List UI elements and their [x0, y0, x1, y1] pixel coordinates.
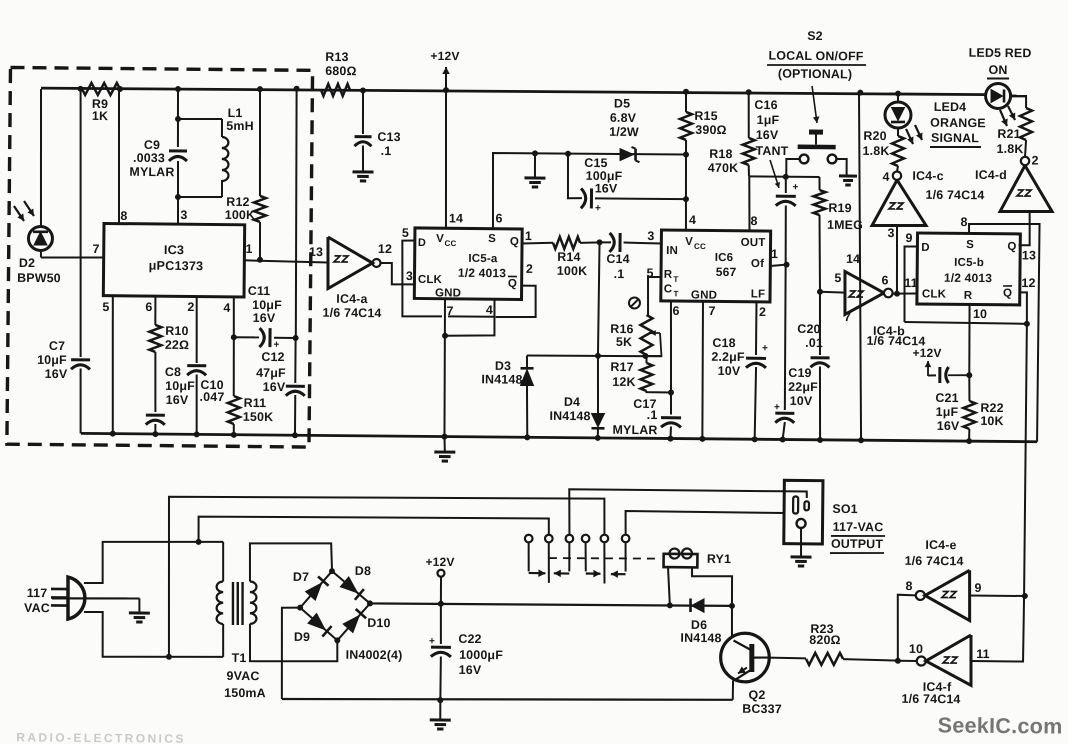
- diode D6 IN4148: [680, 598, 722, 645]
- wire long S2 vertical: [856, 93, 865, 441]
- transformer T1 core: [233, 582, 243, 625]
- capacitor C12 47uF 16V: [256, 350, 306, 435]
- svg-text:T: T: [673, 275, 678, 284]
- svg-text:R10: R10: [165, 324, 188, 338]
- svg-text:D10: D10: [367, 616, 390, 630]
- svg-text:16V: 16V: [756, 128, 779, 142]
- svg-text:+: +: [774, 402, 780, 413]
- svg-text:D3: D3: [495, 359, 511, 373]
- svg-text:+12V: +12V: [430, 49, 459, 63]
- svg-text:D9: D9: [294, 630, 310, 644]
- svg-text:470K: 470K: [708, 161, 739, 175]
- svg-text:CLK: CLK: [922, 288, 947, 300]
- svg-text:C22: C22: [458, 632, 481, 646]
- wire IC6 pin6 CT: [670, 302, 672, 415]
- svg-text:RADIO-ELECTRONICS: RADIO-ELECTRONICS: [16, 730, 186, 744]
- svg-text:MYLAR: MYLAR: [129, 165, 174, 179]
- svg-text:.1: .1: [647, 408, 658, 422]
- capacitor C22 1000uF 16V: [428, 604, 503, 701]
- capacitor C16 1uF 16V TANT: [753, 98, 800, 268]
- svg-text:Q: Q: [1007, 241, 1016, 253]
- svg-text:T: T: [673, 289, 678, 298]
- capacitor C9 .0033 MYLAR: [129, 138, 187, 180]
- IC u3 IC3 uPC1373: [103, 223, 244, 297]
- relay coil RY1: [663, 548, 732, 606]
- svg-text:6: 6: [672, 304, 679, 318]
- svg-text:117-VAC: 117-VAC: [833, 520, 884, 534]
- svg-text:12: 12: [378, 242, 392, 256]
- wire IC3 pin2: [187, 297, 197, 363]
- svg-text:10: 10: [973, 307, 987, 321]
- IC u5b IC5-b 1/2 4013: [917, 233, 1020, 305]
- wire IC5-b Qbar pin12: [1019, 292, 1027, 323]
- wire IC3 pin8: [118, 89, 129, 224]
- svg-text:8: 8: [750, 214, 757, 228]
- svg-text:Q: Q: [1003, 287, 1012, 299]
- svg-text:13: 13: [1022, 248, 1036, 262]
- resistor R10 22ohm: [149, 324, 190, 413]
- svg-text:16V: 16V: [459, 663, 482, 677]
- wire IC5-b S pin8 ground return: [967, 223, 1040, 441]
- svg-text:+12V: +12V: [912, 346, 941, 360]
- svg-text:(OPTIONAL): (OPTIONAL): [778, 67, 852, 82]
- terminal relay contacts: [525, 534, 630, 544]
- svg-text:CC: CC: [445, 239, 457, 248]
- svg-text:C16: C16: [754, 98, 777, 112]
- wire D2 to IC3 pin7: [41, 257, 104, 258]
- svg-text:16V: 16V: [166, 393, 189, 407]
- svg-text:VAC: VAC: [24, 601, 50, 615]
- label SO1: [830, 502, 885, 554]
- resistor R14 100K: [521, 236, 602, 278]
- svg-text:+: +: [273, 339, 279, 350]
- wire IC6 pin8 OUT: [749, 176, 750, 230]
- svg-text:3: 3: [887, 226, 894, 240]
- svg-text:IC6: IC6: [715, 252, 734, 264]
- svg-text:7: 7: [708, 304, 715, 318]
- photodiode D2 BPW50: [13, 89, 62, 286]
- svg-text:R11: R11: [244, 396, 267, 410]
- LED LED4 orange: [885, 93, 986, 147]
- wire IC4-d input to Q13: [1019, 211, 1030, 245]
- label IN4002: [346, 648, 403, 663]
- power +12V terminal: [425, 555, 455, 604]
- wire C9/L1 tank verticals: [174, 89, 182, 224]
- resistor R15 390ohm: [679, 92, 727, 231]
- svg-text:6: 6: [495, 211, 502, 225]
- wire Qbar node long vertical: [971, 323, 1030, 661]
- svg-text:LOCAL ON/OFF: LOCAL ON/OFF: [768, 49, 863, 64]
- svg-text:3: 3: [647, 229, 654, 243]
- wire IC3 pin6: [145, 297, 155, 325]
- wire relay arm 3: [554, 542, 570, 577]
- svg-text:5mH: 5mH: [226, 119, 254, 133]
- label IC3 pin1: [245, 242, 252, 256]
- capacitor C18 2.2uF 10V: [711, 336, 768, 378]
- svg-text:R21: R21: [997, 127, 1020, 141]
- node bridge corners: [297, 568, 374, 644]
- wire IC4-e input: [970, 594, 1025, 597]
- svg-text:OUT: OUT: [741, 237, 766, 249]
- svg-text:OUTPUT: OUTPUT: [831, 537, 883, 552]
- wire bridge minus to ground line: [281, 607, 734, 705]
- svg-text:9: 9: [974, 581, 981, 595]
- svg-text:C20: C20: [797, 322, 820, 336]
- svg-text:V: V: [436, 233, 444, 245]
- svg-text:IC4-e: IC4-e: [925, 538, 956, 552]
- svg-text:D: D: [418, 237, 426, 249]
- svg-text:Of: Of: [751, 258, 764, 270]
- wire +12V top rail: [41, 86, 1026, 98]
- svg-text:C14: C14: [606, 252, 629, 266]
- power +12V C21 feed: [912, 346, 941, 376]
- svg-text:MYLAR: MYLAR: [612, 423, 657, 437]
- svg-text:SIGNAL: SIGNAL: [931, 131, 979, 145]
- IC u5a IC5-a 1/2 4013: [414, 228, 522, 300]
- svg-text:C12: C12: [261, 350, 284, 364]
- wire line B T1 primary bottom tap to pole5: [167, 494, 604, 661]
- node ground bus junction dots: [110, 430, 972, 445]
- svg-text:10K: 10K: [980, 414, 1003, 428]
- diode D10: [343, 609, 391, 633]
- wire line C T1 primary top tap to pole2: [198, 515, 549, 545]
- resistor R13 680ohm: [321, 50, 357, 96]
- svg-text:5K: 5K: [616, 335, 632, 349]
- svg-text:1/6 74C14: 1/6 74C14: [323, 306, 382, 321]
- label IC3 pin3: [180, 208, 187, 222]
- wire IC5-b Q pin13: [1019, 244, 1030, 246]
- resistor R18 470K: [708, 92, 756, 177]
- svg-text:BPW50: BPW50: [17, 271, 61, 285]
- wire IC6 pin7 GND: [702, 302, 704, 439]
- svg-text:150mA: 150mA: [224, 686, 266, 700]
- wire IC6 pin5 RT loop: [648, 277, 662, 315]
- inverter U4b IC4-b 74C14: [834, 252, 927, 348]
- diode D7: [293, 570, 329, 600]
- svg-text:16V: 16V: [263, 380, 286, 394]
- svg-text:C18: C18: [712, 336, 735, 350]
- wire IC5-a pin4 R: [442, 299, 495, 339]
- svg-text:9: 9: [905, 231, 912, 245]
- svg-text:T1: T1: [232, 651, 247, 665]
- ground SO1: [790, 557, 811, 566]
- svg-text:C13: C13: [377, 130, 400, 144]
- svg-text:BC337: BC337: [742, 702, 782, 716]
- svg-text:16V: 16V: [253, 311, 276, 325]
- wire IC5-a pin7 GND: [444, 300, 446, 437]
- transformer T1 secondary: [224, 581, 267, 700]
- resistor R19 1MEG: [813, 177, 864, 295]
- wire plug middle to ground: [52, 598, 140, 612]
- svg-text:.1: .1: [614, 267, 625, 281]
- svg-text:5: 5: [646, 266, 653, 280]
- diode D4 IN4148: [549, 355, 605, 438]
- svg-text:μPC1373: μPC1373: [149, 259, 204, 274]
- wire IC6 pin2 LF: [755, 302, 757, 439]
- svg-text:3: 3: [406, 269, 413, 283]
- svg-text:567: 567: [716, 265, 737, 279]
- svg-text:IN4002(4): IN4002(4): [346, 648, 403, 663]
- node rail junction dots: [77, 82, 901, 100]
- svg-text:IC5-a: IC5-a: [468, 253, 498, 265]
- svg-text:RY1: RY1: [707, 552, 731, 566]
- svg-text:8: 8: [960, 215, 967, 229]
- svg-text:GND: GND: [435, 287, 461, 299]
- svg-text:8: 8: [120, 209, 127, 223]
- svg-text:SeekIC.com: SeekIC.com: [938, 713, 1063, 738]
- resistor R22 10K: [963, 375, 1004, 441]
- wire IC5-a D loop pin5: [402, 240, 496, 317]
- wire IC4-f input: [971, 660, 1023, 663]
- svg-text:1.8K: 1.8K: [997, 142, 1024, 156]
- diode D8: [340, 564, 371, 600]
- svg-text:10V: 10V: [718, 364, 741, 378]
- svg-text:IC4-c: IC4-c: [912, 169, 943, 183]
- capacitor C17 .1 MYLAR: [612, 397, 681, 439]
- svg-text:C19: C19: [788, 366, 811, 380]
- wire relay pole 5: [603, 542, 606, 583]
- svg-text:.0033: .0033: [133, 151, 165, 165]
- svg-text:5: 5: [834, 271, 841, 285]
- svg-text:10μF: 10μF: [37, 353, 67, 367]
- svg-text:7: 7: [92, 242, 99, 256]
- transformer T1 primary: [216, 542, 224, 657]
- svg-text:S2: S2: [807, 29, 823, 43]
- svg-text:11: 11: [976, 647, 990, 661]
- power +12V arrow: [430, 49, 460, 90]
- wire IC5-a pin6 S to ground: [492, 150, 686, 230]
- inverter U4e IC4-e 74C14: [904, 538, 982, 621]
- wire relay arm 1: [528, 542, 545, 577]
- svg-text:.047: .047: [200, 390, 225, 404]
- resistor R20 1.8K: [862, 129, 904, 172]
- svg-text:16V: 16V: [595, 181, 618, 195]
- svg-text:10μF: 10μF: [165, 379, 195, 393]
- svg-text:22μF: 22μF: [788, 380, 818, 394]
- svg-text:R20: R20: [863, 129, 886, 143]
- svg-text:14: 14: [846, 252, 860, 266]
- dashed enclosure (photodetector module): [7, 67, 313, 447]
- svg-text:10V: 10V: [790, 394, 813, 408]
- ground main bus symbol: [434, 437, 455, 462]
- svg-text:R15: R15: [694, 109, 717, 123]
- wire IC5-b CLK: [892, 291, 917, 297]
- wire IC5-b D loop: [904, 246, 918, 322]
- wire IC3 pin1 output: [244, 260, 328, 262]
- svg-text:390Ω: 390Ω: [695, 123, 727, 137]
- resistor R9 1K: [82, 83, 120, 124]
- inverter U4f IC4-f 74C14: [902, 634, 990, 706]
- capacitor C21 1uF 16V: [935, 367, 969, 433]
- wire +12V feed / C12 branch: [292, 89, 301, 383]
- label S2: [767, 29, 867, 124]
- svg-text:S: S: [966, 239, 974, 251]
- svg-text:.01: .01: [805, 336, 823, 350]
- svg-text:D5: D5: [614, 96, 630, 110]
- svg-text:5: 5: [102, 300, 109, 314]
- svg-text:4: 4: [223, 301, 230, 315]
- svg-text:R13: R13: [325, 50, 348, 64]
- svg-text:R18: R18: [709, 147, 732, 161]
- svg-text:ON: ON: [988, 63, 1007, 77]
- svg-text:+: +: [793, 182, 799, 193]
- svg-text:6: 6: [881, 273, 888, 287]
- ground at IC5-a S: [524, 153, 545, 187]
- svg-text:D7: D7: [293, 570, 309, 584]
- svg-text:1/2 4013: 1/2 4013: [944, 271, 993, 285]
- svg-text:LED4: LED4: [934, 100, 967, 114]
- capacitor C15 100uF 16V: [567, 154, 686, 215]
- svg-text:1/2 4013: 1/2 4013: [458, 266, 507, 280]
- wire relay pole 2: [547, 542, 550, 583]
- svg-text:C8: C8: [165, 365, 181, 379]
- diode D3 IN4148: [481, 355, 534, 437]
- svg-text:1: 1: [245, 242, 252, 256]
- wire bridge edges: [300, 571, 370, 641]
- svg-text:22Ω: 22Ω: [165, 338, 189, 352]
- label IC6 pins: [646, 213, 778, 320]
- svg-text:IN4148: IN4148: [549, 409, 590, 423]
- wire plug bottom conductor: [84, 612, 224, 661]
- wire relay arm 4: [585, 542, 601, 577]
- svg-text:11: 11: [904, 276, 918, 290]
- svg-text:4: 4: [689, 213, 696, 227]
- svg-text:1/6 74C14: 1/6 74C14: [905, 554, 964, 569]
- wire IC4-e output: [897, 595, 916, 661]
- svg-text:+: +: [429, 636, 435, 647]
- svg-text:D4: D4: [564, 395, 580, 409]
- svg-text:C: C: [664, 283, 673, 295]
- label IC3 pin7: [92, 242, 99, 256]
- wire IC4-f output: [898, 660, 917, 662]
- svg-text:2: 2: [526, 262, 533, 276]
- svg-text:1: 1: [525, 229, 532, 243]
- svg-text:2: 2: [1031, 153, 1038, 167]
- capacitor C19 22uF 10V: [774, 265, 820, 440]
- svg-text:+12V: +12V: [425, 555, 454, 569]
- svg-text:.1: .1: [381, 144, 392, 158]
- svg-text:IC4-d: IC4-d: [975, 168, 1007, 182]
- svg-text:R17: R17: [610, 360, 633, 374]
- svg-text:IC4-a: IC4-a: [336, 292, 367, 306]
- svg-text:IN4148: IN4148: [481, 372, 522, 386]
- svg-text:4: 4: [486, 303, 493, 317]
- svg-text:R: R: [964, 290, 973, 302]
- wire T1 secondary bottom to bridge: [250, 624, 338, 662]
- trimmer R16 5K: [610, 315, 662, 356]
- svg-text:3: 3: [180, 208, 187, 222]
- svg-text:12: 12: [1021, 276, 1035, 290]
- capacitor C8 10uF 16V: [146, 365, 196, 435]
- svg-text:7: 7: [844, 310, 851, 324]
- capacitor C11 10uF 16V coupling: [234, 284, 296, 351]
- resistor R12 100K: [224, 89, 267, 263]
- svg-text:13: 13: [309, 245, 323, 259]
- svg-text:CC: CC: [694, 242, 706, 251]
- wire clamp node horizontal: [527, 352, 662, 360]
- capacitor C14 .1: [599, 233, 661, 282]
- screwdriver adjust symbol: [629, 297, 640, 308]
- svg-text:14: 14: [449, 211, 463, 225]
- wire ground bus: [81, 433, 1037, 443]
- svg-text:820Ω: 820Ω: [809, 633, 841, 647]
- svg-text:2: 2: [187, 300, 194, 314]
- socket SO1 117VAC output: [784, 480, 823, 556]
- svg-text:C7: C7: [49, 339, 65, 353]
- wire S2 node horizontal: [749, 173, 820, 180]
- svg-text:SO1: SO1: [832, 502, 858, 516]
- inductor L1 5mH: [177, 105, 254, 197]
- svg-text:S: S: [488, 233, 496, 245]
- wire plug top conductor: [84, 538, 223, 585]
- svg-text:1/2W: 1/2W: [609, 125, 639, 139]
- label IC5-a pins: [401, 211, 533, 319]
- svg-text:IN4148: IN4148: [680, 631, 721, 645]
- svg-text:1.8K: 1.8K: [862, 144, 889, 158]
- wire IC4-c input: [896, 225, 897, 293]
- resistor R23 820ohm: [769, 621, 901, 665]
- svg-text:D8: D8: [355, 564, 371, 578]
- wire IC5-b R pin10 down: [966, 305, 973, 378]
- svg-text:2: 2: [759, 305, 766, 319]
- svg-text:16V: 16V: [937, 419, 960, 433]
- svg-text:117: 117: [27, 586, 48, 600]
- capacitor C20 .01: [796, 292, 830, 441]
- svg-text:1K: 1K: [92, 109, 108, 123]
- svg-text:2.2μF: 2.2μF: [711, 350, 745, 364]
- capacitor C7 10uF 16V: [36, 88, 92, 433]
- svg-text:16V: 16V: [45, 367, 68, 381]
- wire T1 secondary top to bridge: [250, 543, 333, 583]
- svg-text:LED5 RED: LED5 RED: [969, 46, 1032, 61]
- diode D9: [294, 613, 332, 644]
- svg-text:Q: Q: [508, 278, 517, 290]
- ground C22: [430, 700, 451, 729]
- svg-text:1μF: 1μF: [936, 405, 959, 419]
- wire relay linkage dashed: [549, 558, 661, 560]
- wire IC4-a output to IC5-a CLK: [381, 263, 416, 285]
- svg-text:4: 4: [882, 170, 889, 184]
- inverter U4a IC4-a 74C14: [308, 237, 392, 320]
- wire IC5-b R line: [904, 320, 1029, 327]
- svg-text:C11: C11: [248, 284, 271, 298]
- svg-text:12K: 12K: [612, 375, 635, 389]
- svg-text:8: 8: [905, 579, 912, 593]
- resistor R11 150K: [227, 337, 274, 437]
- svg-text:IC3: IC3: [164, 243, 184, 257]
- svg-text:LF: LF: [751, 288, 766, 300]
- svg-text:100K: 100K: [225, 208, 256, 222]
- svg-text:C21: C21: [935, 391, 958, 405]
- wire IC5-a pin14 VCC: [445, 90, 448, 228]
- svg-text:+: +: [762, 343, 768, 354]
- svg-text:+: +: [595, 203, 601, 214]
- ground S2: [839, 176, 857, 185]
- wire IC3 pin4: [223, 297, 237, 340]
- svg-text:D2: D2: [19, 256, 35, 270]
- svg-text:100K: 100K: [557, 264, 588, 278]
- svg-text:6: 6: [145, 300, 152, 314]
- capacitor C10 .047: [187, 366, 225, 436]
- wire line A NO contact 3 to SO1: [569, 489, 785, 537]
- switch S2 pushbutton: [786, 129, 847, 177]
- svg-text:IN: IN: [666, 245, 678, 257]
- svg-text:CLK: CLK: [418, 274, 443, 286]
- svg-text:1MEG: 1MEG: [827, 218, 863, 232]
- svg-text:Q: Q: [510, 236, 519, 248]
- plug 117VAC: [24, 577, 85, 620]
- svg-text:1000μF: 1000μF: [459, 648, 503, 662]
